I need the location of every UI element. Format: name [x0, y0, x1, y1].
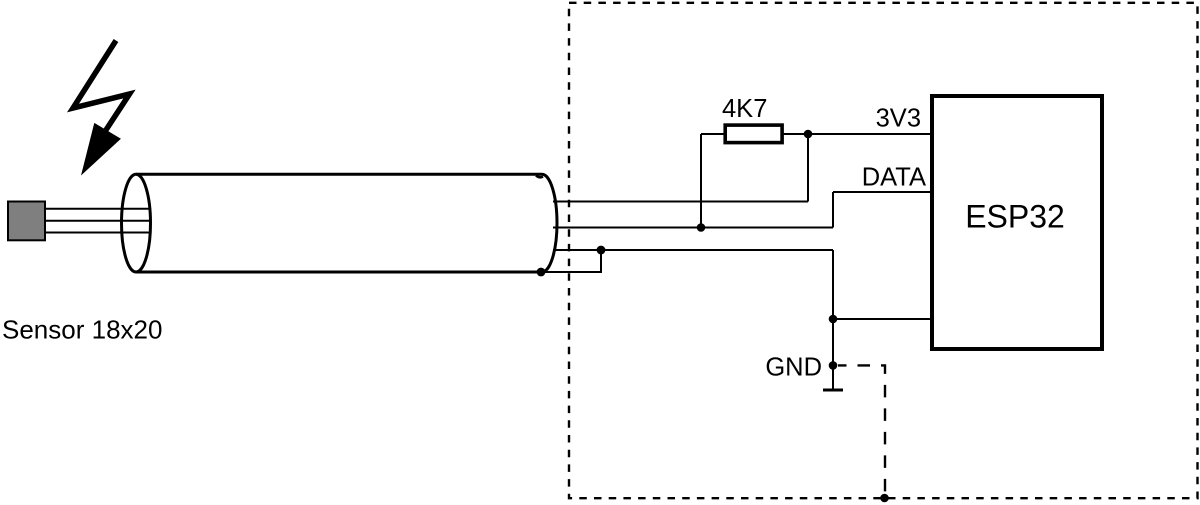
ground symbol bar: [823, 389, 843, 392]
junction dot at resistor right / 3V3: [804, 130, 813, 139]
ESD lightning arrow: [73, 41, 130, 176]
DATA net wire (cylinder middle wire, up at x=833, into ESP32): [553, 192, 932, 228]
dot where dashed earth wire meets enclosure: [880, 494, 889, 503]
ESP32 box U1: [932, 96, 1102, 349]
junction dot resistor left leg / data wire: [697, 223, 706, 232]
svg-text:Sensor 18x20: Sensor 18x20: [2, 315, 162, 345]
3V3 net wire (cylinder top wire to resistor-right junction, up, then to ESP32): [553, 134, 932, 228]
dashed earth wire from GND node to enclosure bottom: [838, 365, 885, 498]
junction dot GND node: [829, 361, 838, 370]
cable shield tail wire: [541, 250, 601, 272]
svg-text:DATA: DATA: [862, 164, 926, 192]
svg-text:4K7: 4K7: [722, 95, 767, 123]
junction dot on cylinder bottom (shield): [537, 268, 546, 277]
svg-text:3V3: 3V3: [876, 105, 921, 133]
cable cylinder: [122, 174, 558, 272]
junction dot shield/gnd wire: [597, 246, 606, 255]
GND net wire (cylinder bottom wire): [553, 250, 932, 389]
resistor R 4K7: [725, 125, 782, 143]
dashed enclosure box: [569, 3, 1198, 498]
sensor leads (3 wires): [45, 209, 151, 233]
svg-text:ESP32: ESP32: [965, 199, 1065, 235]
sensor body (gray TO-92 square): [8, 202, 45, 241]
junction dot ESP32 gnd pin branch: [829, 315, 838, 324]
svg-text:GND: GND: [765, 354, 822, 382]
